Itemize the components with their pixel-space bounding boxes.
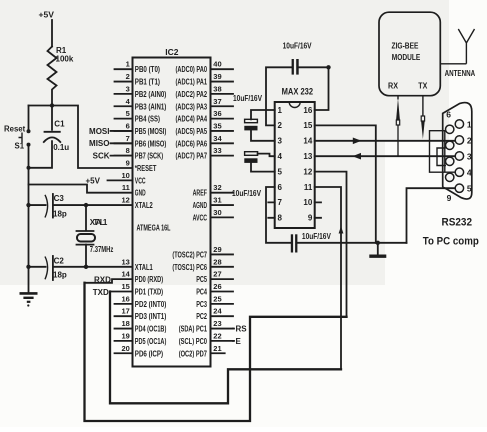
svg-text:24: 24 xyxy=(213,307,222,316)
DB9 pin 6 number xyxy=(446,110,451,120)
svg-text:PB1 (T1): PB1 (T1) xyxy=(135,78,160,87)
DB9 pin 9 number xyxy=(447,193,452,203)
label To PC comp xyxy=(423,236,479,248)
wire MAX232 pin 13 to RS232 pin 3 xyxy=(315,153,455,160)
svg-text:AGND: AGND xyxy=(193,201,208,210)
wire C3 to IC2 XTAL2 (pin 12) xyxy=(54,203,133,207)
svg-text:XTAL2: XTAL2 xyxy=(135,201,153,210)
IC2 pin 17 PD3 (INT1) xyxy=(115,307,167,322)
crystal XTAL1 7.37MHz xyxy=(77,205,114,267)
wire ground rail (left) xyxy=(28,168,30,292)
svg-text:20: 20 xyxy=(121,344,129,353)
svg-text:E: E xyxy=(236,337,242,346)
IC2 pin 6 PB5 (MOSI) xyxy=(115,121,167,136)
svg-text:ZIG-BEE: ZIG-BEE xyxy=(392,42,419,51)
svg-text:(ADC1) PA1: (ADC1) PA1 xyxy=(176,78,208,87)
wire reset node to IC2 pin 9 xyxy=(29,103,133,168)
svg-text:36: 36 xyxy=(213,109,221,118)
antenna xyxy=(440,29,475,78)
MAX232 pin 5 number xyxy=(278,167,283,176)
IC2 pin 40 (ADC0) PA0 xyxy=(176,60,234,75)
svg-text:27: 27 xyxy=(213,270,221,279)
wire MAX232 pin 15 to ground xyxy=(315,125,380,245)
svg-text:9: 9 xyxy=(126,159,130,168)
svg-text:13: 13 xyxy=(303,152,312,161)
svg-text:35: 35 xyxy=(213,121,221,130)
DB9 pin 9 xyxy=(446,173,454,181)
svg-text:MISO: MISO xyxy=(89,139,109,148)
svg-text:PD5 (OC1A): PD5 (OC1A) xyxy=(135,337,167,346)
svg-text:XTAL1: XTAL1 xyxy=(90,218,108,227)
svg-text:PB7 (SCK): PB7 (SCK) xyxy=(135,152,164,161)
MAX232 pin 15 number xyxy=(303,121,312,130)
svg-text:18p: 18p xyxy=(53,271,67,280)
svg-text:11: 11 xyxy=(122,183,130,192)
svg-text:7: 7 xyxy=(278,198,283,207)
svg-text:12: 12 xyxy=(303,167,312,176)
svg-text:5: 5 xyxy=(126,109,130,118)
IC2 pin 30 AVCC xyxy=(193,208,233,223)
IC2 pin 28 (TOSC1) PC6 xyxy=(172,257,233,272)
svg-text:(ADC0) PA0: (ADC0) PA0 xyxy=(176,65,208,74)
IC2 pin 25 PC3 xyxy=(196,294,233,309)
svg-text:PB3 (AIN1): PB3 (AIN1) xyxy=(135,102,167,111)
IC2 pin 35 (ADC5) PA5 xyxy=(176,121,234,136)
svg-text:7.37MHz: 7.37MHz xyxy=(90,245,114,254)
svg-text:PB6 (MISO): PB6 (MISO) xyxy=(135,139,167,148)
wire C2/crystal to IC2 XTAL1 (pin 13) xyxy=(54,265,133,269)
svg-text:PB5 (MOSI): PB5 (MOSI) xyxy=(135,127,167,136)
IC2 pin 1 PB0 (T0) xyxy=(115,60,161,75)
svg-text:(TOSC1) PC6: (TOSC1) PC6 xyxy=(172,263,207,272)
svg-text:18: 18 xyxy=(121,319,129,328)
svg-text:PD2 (INT0): PD2 (INT0) xyxy=(135,300,167,309)
IC2 pin 24 PC2 xyxy=(196,307,233,322)
capacitor 10uF/16V between MAX232 pins 1 and 3 xyxy=(233,94,275,141)
svg-text:RS: RS xyxy=(236,325,248,334)
svg-text:PB4 (SS): PB4 (SS) xyxy=(135,115,160,124)
wire MAX232 pin 14 to RS232 pin 2 xyxy=(315,138,455,145)
IC2 pin 27 PC5 xyxy=(196,270,233,285)
svg-text:PC4: PC4 xyxy=(196,288,207,297)
MAX232 pin 2 number xyxy=(278,121,283,130)
svg-text:PD4 (OC1B): PD4 (OC1B) xyxy=(135,325,167,334)
DB9 pin 3 xyxy=(455,151,472,161)
IC2 pin 19 PD5 (OC1A) xyxy=(115,331,167,346)
IC2 pin 2 PB1 (T1) xyxy=(115,72,161,87)
svg-text:PD6 (ICP): PD6 (ICP) xyxy=(135,349,164,358)
MAX232 pin 4 number xyxy=(278,152,283,161)
svg-text:TXD: TXD xyxy=(93,288,109,297)
IC2 pin 32 AREF xyxy=(193,183,233,198)
IC2 pin 23 (SDA) PC1 xyxy=(179,319,233,334)
node RS (IC2 pin 23) xyxy=(233,325,247,334)
svg-text:28: 28 xyxy=(213,257,221,266)
svg-text:PB0 (T0): PB0 (T0) xyxy=(135,65,160,74)
svg-text:10: 10 xyxy=(303,198,312,207)
IC2 pin 31 AGND xyxy=(193,196,233,211)
wire RXD: IC2 pin 14 to MAX232 pin 12 xyxy=(85,172,347,421)
svg-text:2: 2 xyxy=(126,72,130,81)
svg-text:PC3: PC3 xyxy=(196,300,207,309)
svg-text:6: 6 xyxy=(278,183,283,192)
svg-text:PC5: PC5 xyxy=(196,275,207,284)
IC2 pin 4 PB3 (AIN1) xyxy=(115,97,167,112)
IC2 pin 18 PD4 (OC1B) xyxy=(115,319,167,334)
IC2 pin 26 PC4 xyxy=(196,282,233,297)
capacitor 10uF/16V between MAX232 pins 2 and 16 (top) xyxy=(266,42,331,126)
svg-text:10uF/16V: 10uF/16V xyxy=(232,189,262,198)
svg-text:+5V: +5V xyxy=(39,10,55,20)
svg-text:AVCC: AVCC xyxy=(193,213,208,222)
MAX232 pin 12 number xyxy=(303,167,312,176)
svg-text:15: 15 xyxy=(121,282,129,291)
svg-text:PD3 (INT1): PD3 (INT1) xyxy=(135,312,167,321)
svg-text:2: 2 xyxy=(278,121,283,130)
svg-text:10: 10 xyxy=(121,171,129,180)
svg-text:0.1u: 0.1u xyxy=(53,143,69,152)
node +5V at IC2 VCC pin 10 xyxy=(86,176,133,185)
capacitor 10uF/16V between MAX232 pins 4 and 5 xyxy=(232,152,275,198)
IC2 pin 16 PD2 (INT0) xyxy=(115,294,167,309)
svg-text:GND: GND xyxy=(135,189,146,198)
resistor R1 100k xyxy=(48,46,74,105)
capacitor C2 18p xyxy=(26,256,67,280)
IC2 pin 29 (TOSC2) PC7 xyxy=(172,245,233,260)
MAX232 pin 14 number xyxy=(303,137,312,146)
wire DB9 jumper pins 7-8 (bracket) xyxy=(437,148,446,166)
IC2 pin 8 PB7 (SCK) xyxy=(115,146,164,161)
MAX232 pin 6 number xyxy=(278,183,283,192)
wire/arrow ZigBee TX down to MAX232 pin14 line xyxy=(421,96,425,139)
IC2 pin 21 (OC2) PD7 xyxy=(179,344,225,359)
svg-text:17: 17 xyxy=(121,307,129,316)
IC MAX 232 body xyxy=(275,86,315,228)
svg-text:To PC comp: To PC comp xyxy=(423,236,479,248)
svg-text:14: 14 xyxy=(121,270,130,279)
svg-text:PD0 (RXD): PD0 (RXD) xyxy=(135,275,164,284)
svg-text:7: 7 xyxy=(126,134,130,143)
DB9 pin 7 xyxy=(446,141,454,149)
node MOSI xyxy=(89,127,132,136)
svg-text:(ADC3) PA3: (ADC3) PA3 xyxy=(176,102,208,111)
IC2 pin 22 (SCL) PC0 xyxy=(179,331,233,346)
module ZIG-BEE xyxy=(379,12,440,96)
svg-text:RS232: RS232 xyxy=(442,217,473,229)
svg-text:MAX 232: MAX 232 xyxy=(282,86,314,96)
svg-text:PB2 (AIN0): PB2 (AIN0) xyxy=(135,90,167,99)
svg-text:1: 1 xyxy=(278,106,283,115)
svg-text:37: 37 xyxy=(213,97,221,106)
svg-text:16: 16 xyxy=(303,106,312,115)
IC2 pin 33 (ADC7) PA7 xyxy=(176,146,234,161)
svg-text:18p: 18p xyxy=(53,210,67,219)
capacitor 10uF/16V bottom (MAX232 pin 6 branch) xyxy=(266,187,407,253)
svg-text:38: 38 xyxy=(213,84,221,93)
svg-text:MODULE: MODULE xyxy=(392,53,421,62)
ground symbol (near MAX232) xyxy=(369,243,386,256)
svg-text:40: 40 xyxy=(213,60,221,69)
IC2 pin 10 VCC xyxy=(121,171,145,186)
svg-text:ANTENNA: ANTENNA xyxy=(445,69,476,78)
DB9 pin 8 xyxy=(446,157,454,165)
svg-text:5: 5 xyxy=(278,167,283,176)
IC2 pin 9 *RESET xyxy=(126,159,157,174)
MAX232 pin 11 number xyxy=(304,183,313,192)
svg-text:30: 30 xyxy=(213,208,221,217)
wire/arrow ZigBee RX down to MAX232 pin13 line xyxy=(396,96,400,157)
ground symbol (left rail) xyxy=(20,293,38,306)
svg-text:33: 33 xyxy=(213,146,221,155)
MAX232 pin 10 number xyxy=(303,198,312,207)
svg-text:XTAL1: XTAL1 xyxy=(135,263,153,272)
node +5V supply xyxy=(39,10,55,47)
svg-text:Reset: Reset xyxy=(4,125,26,134)
svg-text:26: 26 xyxy=(213,282,221,291)
svg-text:(ADC4) PA4: (ADC4) PA4 xyxy=(176,115,208,124)
svg-text:8: 8 xyxy=(126,146,130,155)
capacitor C1 0.1u xyxy=(27,106,70,170)
svg-text:25: 25 xyxy=(213,294,221,303)
DB9 pin 4 xyxy=(455,168,472,178)
svg-text:22: 22 xyxy=(213,331,221,340)
svg-text:29: 29 xyxy=(213,245,221,254)
IC2 pin 37 (ADC3) PA3 xyxy=(176,97,234,112)
DB9 pin 2 xyxy=(455,135,472,145)
wire IC2 GND (pin 11) to ground rail xyxy=(29,185,133,193)
svg-text:IC2: IC2 xyxy=(165,47,179,57)
svg-text:21: 21 xyxy=(213,344,221,353)
IC2 pin 11 GND xyxy=(122,183,146,198)
svg-text:*RESET: *RESET xyxy=(135,164,157,173)
svg-text:10uF/16V: 10uF/16V xyxy=(302,232,332,241)
svg-text:9: 9 xyxy=(308,214,313,223)
svg-text:PD1 (TXD): PD1 (TXD) xyxy=(135,288,164,297)
wire RS232 pin 5 to ground net xyxy=(407,188,456,243)
svg-text:2: 2 xyxy=(467,135,472,145)
svg-text:12: 12 xyxy=(121,196,129,205)
DB9 pin 6 xyxy=(446,125,454,133)
svg-text:MOSI: MOSI xyxy=(89,127,109,136)
IC2 pin 13 XTAL1 xyxy=(121,257,153,272)
svg-text:ATMEGA 16L: ATMEGA 16L xyxy=(137,224,171,233)
IC2 pin 14 PD0 (RXD) xyxy=(121,270,163,285)
svg-text:S1: S1 xyxy=(15,142,25,151)
svg-text:(ADC5) PA5: (ADC5) PA5 xyxy=(176,127,208,136)
wire TXD: IC2 pin 15 to MAX232 pin 11 xyxy=(93,187,344,403)
IC2 pin 38 (ADC2) PA2 xyxy=(176,84,234,99)
svg-text:C1: C1 xyxy=(54,119,65,128)
svg-text:10uF/16V: 10uF/16V xyxy=(283,42,313,51)
svg-text:RX: RX xyxy=(388,82,399,91)
svg-text:9: 9 xyxy=(447,193,452,203)
svg-text:(ADC7) PA7: (ADC7) PA7 xyxy=(176,152,208,161)
node MISO xyxy=(89,139,132,148)
svg-text:PC2: PC2 xyxy=(196,312,207,321)
svg-text:19: 19 xyxy=(121,331,129,340)
label RS232 xyxy=(442,217,473,229)
DB9 pin 1 xyxy=(455,119,472,129)
svg-text:16: 16 xyxy=(121,294,129,303)
IC2 pin 20 PD6 (ICP) xyxy=(115,344,164,359)
svg-text:(ADC2) PA2: (ADC2) PA2 xyxy=(176,90,208,99)
svg-text:(TOSC2) PC7: (TOSC2) PC7 xyxy=(172,250,207,259)
svg-text:(ADC6) PA6: (ADC6) PA6 xyxy=(176,139,208,148)
svg-text:14: 14 xyxy=(303,137,312,146)
IC2 pin 7 PB6 (MISO) xyxy=(115,134,167,149)
microcontroller IC2 ATMEGA 16L body xyxy=(133,47,211,367)
svg-text:34: 34 xyxy=(213,134,222,143)
svg-text:SCK: SCK xyxy=(93,152,110,161)
switch S1 (Reset) xyxy=(4,106,31,169)
svg-text:39: 39 xyxy=(213,72,221,81)
svg-text:4: 4 xyxy=(467,168,472,178)
svg-text:13: 13 xyxy=(121,257,129,266)
IC2 pin 15 PD1 (TXD) xyxy=(121,282,163,297)
svg-text:4: 4 xyxy=(278,152,283,161)
MAX232 pin 3 number xyxy=(278,137,283,146)
DB9 pin 5 xyxy=(455,184,472,194)
svg-text:AREF: AREF xyxy=(193,189,207,198)
MAX232 pin 8 number xyxy=(278,214,283,223)
MAX232 pin 16 number xyxy=(303,106,312,115)
MAX232 pin 9 number xyxy=(308,214,313,223)
svg-text:3: 3 xyxy=(467,151,472,161)
node E (IC2 pin 22) xyxy=(233,337,242,346)
IC2 pin 39 (ADC1) PA1 xyxy=(176,72,234,87)
IC2 pin 12 XTAL2 xyxy=(121,196,153,211)
svg-text:31: 31 xyxy=(213,196,221,205)
svg-text:TX: TX xyxy=(418,82,428,91)
node SCK xyxy=(93,152,133,161)
svg-text:10uF/16V: 10uF/16V xyxy=(233,94,263,103)
svg-text:15: 15 xyxy=(303,121,312,130)
connector RS232 DB9 shell xyxy=(443,103,472,199)
svg-text:32: 32 xyxy=(213,183,221,192)
svg-text:3: 3 xyxy=(126,84,130,93)
svg-text:100k: 100k xyxy=(56,54,74,63)
svg-text:+5V: +5V xyxy=(86,176,101,185)
IC2 pin 36 (ADC4) PA4 xyxy=(176,109,234,124)
svg-text:(SCL) PC0: (SCL) PC0 xyxy=(179,337,208,346)
svg-text:C3: C3 xyxy=(54,194,65,203)
svg-text:8: 8 xyxy=(278,214,283,223)
svg-text:1: 1 xyxy=(126,60,130,69)
IC2 pin 34 (ADC6) PA6 xyxy=(176,134,234,149)
capacitor C3 18p xyxy=(26,194,67,219)
MAX232 unconnected pin stubs 7,8,9,10 xyxy=(268,202,321,217)
MAX232 pin 7 number xyxy=(278,198,283,207)
svg-text:6: 6 xyxy=(126,121,130,130)
svg-text:11: 11 xyxy=(304,183,313,192)
MAX232 pin 1 number xyxy=(278,106,283,115)
wire DB9 jumper pins 6-4 (bracket) xyxy=(430,131,456,173)
svg-text:3: 3 xyxy=(278,137,283,146)
IC2 pin 5 PB4 (SS) xyxy=(115,109,161,124)
svg-text:5: 5 xyxy=(467,184,472,194)
MAX232 pin 13 number xyxy=(303,152,312,161)
svg-text:23: 23 xyxy=(213,319,221,328)
svg-text:VCC: VCC xyxy=(135,176,146,185)
svg-text:1: 1 xyxy=(467,119,472,129)
IC2 pin 3 PB2 (AIN0) xyxy=(115,84,167,99)
svg-text:(OC2) PD7: (OC2) PD7 xyxy=(179,349,208,358)
svg-text:(SDA) PC1: (SDA) PC1 xyxy=(179,325,208,334)
svg-text:6: 6 xyxy=(446,110,451,120)
svg-text:C2: C2 xyxy=(54,257,65,266)
